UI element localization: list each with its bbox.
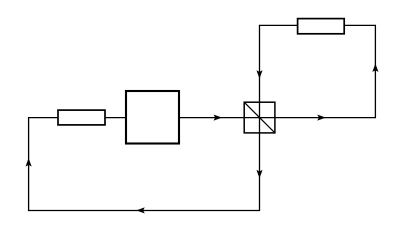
wire: right vertical rising to top loop [374, 25, 376, 118]
wire: input segment from left loop to small box [29, 117, 58, 119]
arrowhead: rightward on output wire [318, 115, 325, 120]
wire: top horizontal right of top box [344, 24, 376, 26]
wire: crossed box horizontal pass-through [244, 117, 275, 119]
wire: top horizontal left of top box [259, 24, 298, 26]
wire: faint pass-through inside large box [127, 117, 179, 119]
arrowhead: downward below crossed box [257, 170, 262, 177]
wire: small box to large box [105, 117, 125, 119]
arrowhead: upward on right vertical [373, 64, 378, 71]
box: small rectangle (left, attenuator style) [58, 110, 105, 125]
arrowhead: downward into crossed box [257, 71, 262, 78]
diagonal of crossed square [244, 102, 274, 132]
box: top-right rectangle [298, 19, 345, 34]
arrowhead: leftward on bottom wire [137, 208, 144, 213]
wire: vertical from top loop down through crossed box to bottom loop [259, 25, 261, 210]
wire: output from crossed box to right vertical [275, 117, 375, 119]
arrowhead: rightward before crossed box [214, 115, 221, 120]
wire: left vertical of feedback loop [28, 117, 30, 211]
arrowhead: upward on left vertical [26, 159, 31, 166]
wire: large box to crossed box [180, 117, 244, 119]
wire: bottom horizontal of feedback loop [29, 210, 260, 212]
box: crossed square (beam splitter) [244, 102, 275, 133]
box: large square block [126, 91, 179, 144]
